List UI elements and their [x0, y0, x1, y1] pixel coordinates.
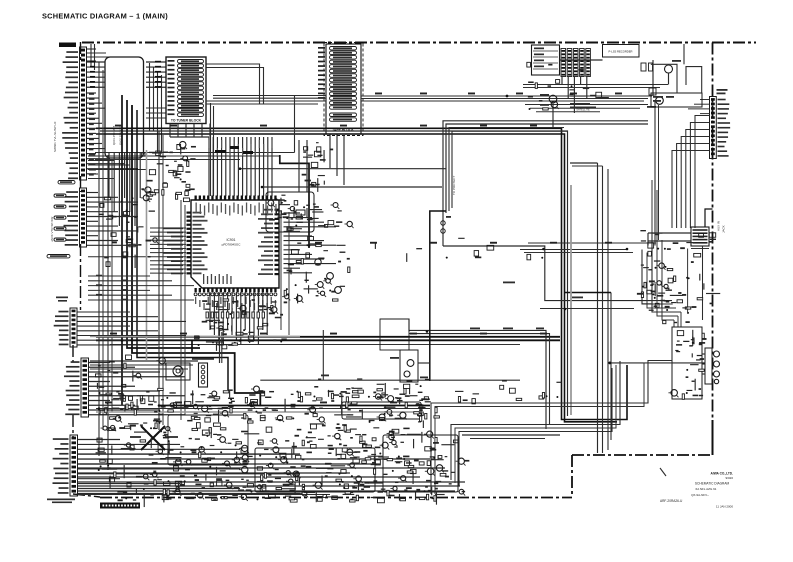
svg-text:ARF-20RA26-U: ARF-20RA26-U — [660, 499, 683, 503]
wire stubs ribbon to tuner — [146, 108, 166, 118]
connector CN604 pin labels — [64, 361, 80, 415]
wires top right cluster — [523, 60, 668, 113]
IC901 top pin number row — [196, 203, 277, 216]
connector CN601 vertical text — [53, 121, 57, 152]
junction dot — [506, 95, 509, 98]
crystal X901 — [294, 208, 307, 217]
wires y104-112 top right — [525, 105, 648, 112]
amp gray bus — [96, 411, 420, 413]
wire heavy X crossing — [130, 426, 178, 450]
mid right labels — [455, 380, 562, 404]
connector CN602 — [80, 188, 87, 247]
svg-text:µPD78045GC: µPD78045GC — [222, 243, 242, 247]
IC U901 (QFP microcontroller) — [187, 196, 280, 296]
part with circle — [166, 363, 190, 380]
wire heavy bus A — [96, 128, 627, 419]
wire AUX bus — [409, 330, 550, 429]
wire fanout below IC901 — [210, 292, 267, 345]
connector CN605 bottom label — [47, 499, 75, 504]
ribbon connector bars — [561, 49, 590, 77]
wire long CN605 rows — [78, 454, 465, 495]
SIP connector P902 — [192, 358, 214, 387]
svg-text:SCHEMATIC DIAGRAM: SCHEMATIC DIAGRAM — [695, 482, 730, 486]
wire stub labels CN601 — [89, 93, 96, 175]
labels near y245 bus — [375, 238, 543, 262]
headphone amp box — [672, 327, 702, 399]
transistor Q702 — [647, 97, 663, 108]
transistor Q703 — [665, 60, 682, 85]
amp block box 1 — [342, 402, 421, 419]
board outline notch vertical — [571, 455, 573, 497]
wire stubs CN604 — [89, 363, 185, 415]
svg-text:SCHEMATIC DIAGRAM – 1 (MAIN): SCHEMATIC DIAGRAM – 1 (MAIN) — [42, 12, 168, 21]
svg-text:6A NFL AZG 91: 6A NFL AZG 91 — [696, 487, 717, 491]
connector CN801 top labels — [717, 89, 728, 94]
ribbon cable box — [105, 57, 144, 158]
connector CN605 pin labels — [53, 438, 69, 494]
wire bus y245 — [520, 243, 656, 253]
wire y163 feed — [570, 163, 603, 166]
wire rows y276-300 left — [88, 275, 194, 301]
wire y362.9 to jack — [608, 362, 705, 365]
svg-text:SW601 TVL-SL/SP UZ: SW601 TVL-SL/SP UZ — [53, 121, 57, 152]
small parts at bundle foot — [441, 216, 451, 233]
board outline right edge — [712, 43, 714, 422]
wire bus FM lines — [95, 153, 295, 160]
board outline right solid segment — [712, 420, 714, 455]
svg-text:TO PROTECT: TO PROTECT — [452, 176, 456, 195]
tuner block connector — [166, 57, 206, 124]
connector CN601 pin labels — [62, 51, 78, 179]
wire bundle y121-131 with left corners — [443, 121, 648, 246]
wire stubs CN602 — [87, 193, 138, 246]
board outline bottom edge — [100, 497, 572, 499]
parts below tape block — [302, 142, 334, 192]
wire tuner top-right exit — [206, 64, 264, 104]
wire x652 up — [652, 180, 657, 236]
wires above control box — [651, 64, 702, 93]
connector CN801 — [710, 97, 717, 159]
vertical pair x281 — [281, 210, 289, 335]
cluster headphone parts — [668, 331, 705, 400]
board outline top edge — [82, 42, 756, 44]
AUX labels — [470, 328, 544, 330]
board outline notch horizontal — [572, 454, 713, 456]
wire y187 horizontal — [261, 186, 442, 189]
wires into CN801 nested fan — [672, 100, 710, 229]
tiny parts top right — [527, 62, 609, 110]
wire y308 long — [540, 308, 634, 310]
wire bus C — [100, 131, 568, 416]
amplifier left margin parts — [96, 391, 154, 507]
transistor Q701 — [540, 94, 557, 128]
label PHONE — [503, 282, 583, 299]
components below IC (R/C cluster) — [195, 299, 288, 351]
wire trunk x112 — [111, 160, 113, 412]
upper amp parts — [314, 378, 430, 414]
svg-text:P-LSS RECORDER: P-LSS RECORDER — [609, 50, 633, 54]
wire bundle y361-369 — [90, 361, 198, 369]
wire stubs CN603 — [78, 312, 187, 345]
LSS recorder box — [603, 45, 640, 58]
power block box — [532, 45, 560, 75]
wire trunk x181 — [181, 200, 185, 420]
small parts top right — [641, 60, 656, 96]
wire labels on tuner bus — [90, 61, 161, 88]
connector CN601 — [80, 47, 87, 180]
wire tape block bottom drops — [330, 134, 344, 185]
net flag pill — [47, 255, 70, 258]
wires into headphone cluster — [674, 312, 681, 327]
left mid stub parts — [99, 197, 159, 268]
gray trace x571 — [570, 185, 572, 415]
wire amp heavy bus — [96, 406, 430, 409]
connector CN604 — [81, 358, 89, 417]
net flag arrows left column — [54, 194, 66, 241]
wire tuner block drops to fanout — [170, 124, 210, 138]
wire x655 vertical — [655, 101, 659, 246]
amp right edge parts — [433, 440, 469, 505]
components mid-left cluster — [95, 355, 166, 431]
connector CN602 pin labels — [64, 191, 78, 246]
svg-text:AIWA CO.,LTD.: AIWA CO.,LTD. — [711, 472, 734, 476]
wire y168 horizontal — [239, 167, 447, 170]
svg-text:AUX IN: AUX IN — [717, 221, 721, 231]
wire fanout above IC901 — [208, 137, 272, 196]
wire stubs CN605 — [78, 440, 300, 494]
control box right — [651, 93, 702, 107]
wire bus CN601 to tuner block — [87, 62, 166, 87]
wire trunk x160 pair — [159, 131, 163, 430]
title block text — [660, 468, 733, 509]
connector CN801 labels — [718, 99, 731, 157]
wire trunk x599-x611 — [598, 163, 612, 453]
wires left mid stubs y150-180 — [88, 156, 146, 179]
wire trunk x108 — [107, 155, 109, 470]
wire heavy L mid — [280, 155, 309, 248]
wire bus mid horizontal — [96, 337, 560, 345]
vertical x299 x307 — [299, 140, 307, 192]
connector CN603 — [70, 308, 77, 347]
wire trunk x99 — [98, 62, 100, 456]
wire pair tuner right edge down — [211, 103, 214, 196]
parts inside sub-circuit box — [265, 195, 323, 231]
label TO SATELLITE PAD — [570, 103, 596, 112]
wire heavy y292 link — [564, 292, 611, 294]
headphone jack — [705, 348, 720, 384]
junction dots — [98, 244, 629, 410]
resistor array below IC901 — [206, 312, 265, 318]
svg-text:QX-9A-NFV--: QX-9A-NFV-- — [691, 493, 709, 497]
title text — [42, 12, 168, 21]
wires headphone — [702, 354, 705, 374]
components left of IC top (R/C cluster) — [141, 141, 196, 202]
svg-text:SATELLITE: SATELLITE — [576, 108, 590, 112]
wire vertical right of tuner — [294, 95, 296, 153]
svg-text:JACK VTR SP-SW: JACK VTR SP-SW — [50, 217, 54, 242]
wire trunk tape to top-right — [361, 96, 652, 101]
AUX IN jack J801 — [648, 209, 726, 320]
wire heavy bus B — [96, 134, 617, 422]
tape block connector — [324, 43, 363, 136]
connector CN601 label (black) — [59, 43, 76, 48]
wire y246 to phones — [443, 246, 672, 301]
connector CN602 vertical text — [50, 217, 54, 242]
wire to right connector top — [683, 44, 685, 64]
transistor cluster Q-mute — [390, 350, 430, 382]
parts cluster x691 — [692, 330, 706, 364]
svg-text:9/020: 9/020 — [725, 476, 733, 480]
IC901 left pin labels — [88, 227, 186, 274]
ribbon box inner labels — [112, 125, 123, 145]
amp block box 3 — [383, 435, 458, 492]
wire gray trunk — [90, 150, 300, 360]
net flag REMO — [58, 181, 75, 184]
wire verticals x149-161 upper — [150, 63, 162, 153]
tuner block left pin marks — [168, 60, 175, 115]
IC901 bottom pin labels — [195, 297, 276, 310]
wire staircase right — [642, 232, 681, 320]
wire loop bundle — [431, 361, 672, 495]
amplifier section components Q401-Q432 — [150, 386, 444, 503]
svg-text:IC901: IC901 — [226, 238, 235, 242]
amp block box 4 — [168, 415, 248, 465]
wires right of IC — [284, 213, 337, 273]
wire y381 row — [260, 330, 520, 380]
wire AUX left section — [380, 319, 409, 350]
wires top-left verticals — [87, 44, 116, 70]
wire trunk tuner to tape — [206, 96, 326, 105]
net labels on buses — [105, 93, 622, 404]
connector CN605 — [70, 435, 78, 496]
parts cluster x634-677 — [637, 280, 683, 311]
wire y435 segment — [462, 435, 560, 439]
wire heavy x430 vertical — [430, 211, 446, 381]
connector CN603 pin labels — [54, 311, 69, 346]
svg-text:TO TUNER BLOCK: TO TUNER BLOCK — [171, 119, 202, 123]
fanout black labels — [215, 146, 253, 154]
tape block left pin marks — [318, 47, 325, 99]
part number black bar — [100, 503, 140, 509]
svg-text:JACK: JACK — [722, 225, 726, 233]
cluster right mid — [640, 230, 720, 324]
transistor Q-mid cluster — [315, 259, 342, 294]
wire trunk x103 — [102, 70, 104, 430]
amp block box 2 — [255, 448, 375, 492]
wires below ribbon box — [109, 153, 140, 226]
wire stubs CN601 right — [87, 93, 138, 174]
components right of IC (Q/R cluster) — [282, 201, 353, 304]
sub-circuit box right of IC — [266, 192, 314, 232]
wire heavy trunk staircase — [122, 95, 260, 406]
board outline left edge segments — [73, 42, 100, 497]
label marks y297 — [56, 297, 68, 302]
svg-text:11 JAN 2000: 11 JAN 2000 — [716, 505, 733, 509]
vertical net label PROTECT — [452, 176, 456, 195]
